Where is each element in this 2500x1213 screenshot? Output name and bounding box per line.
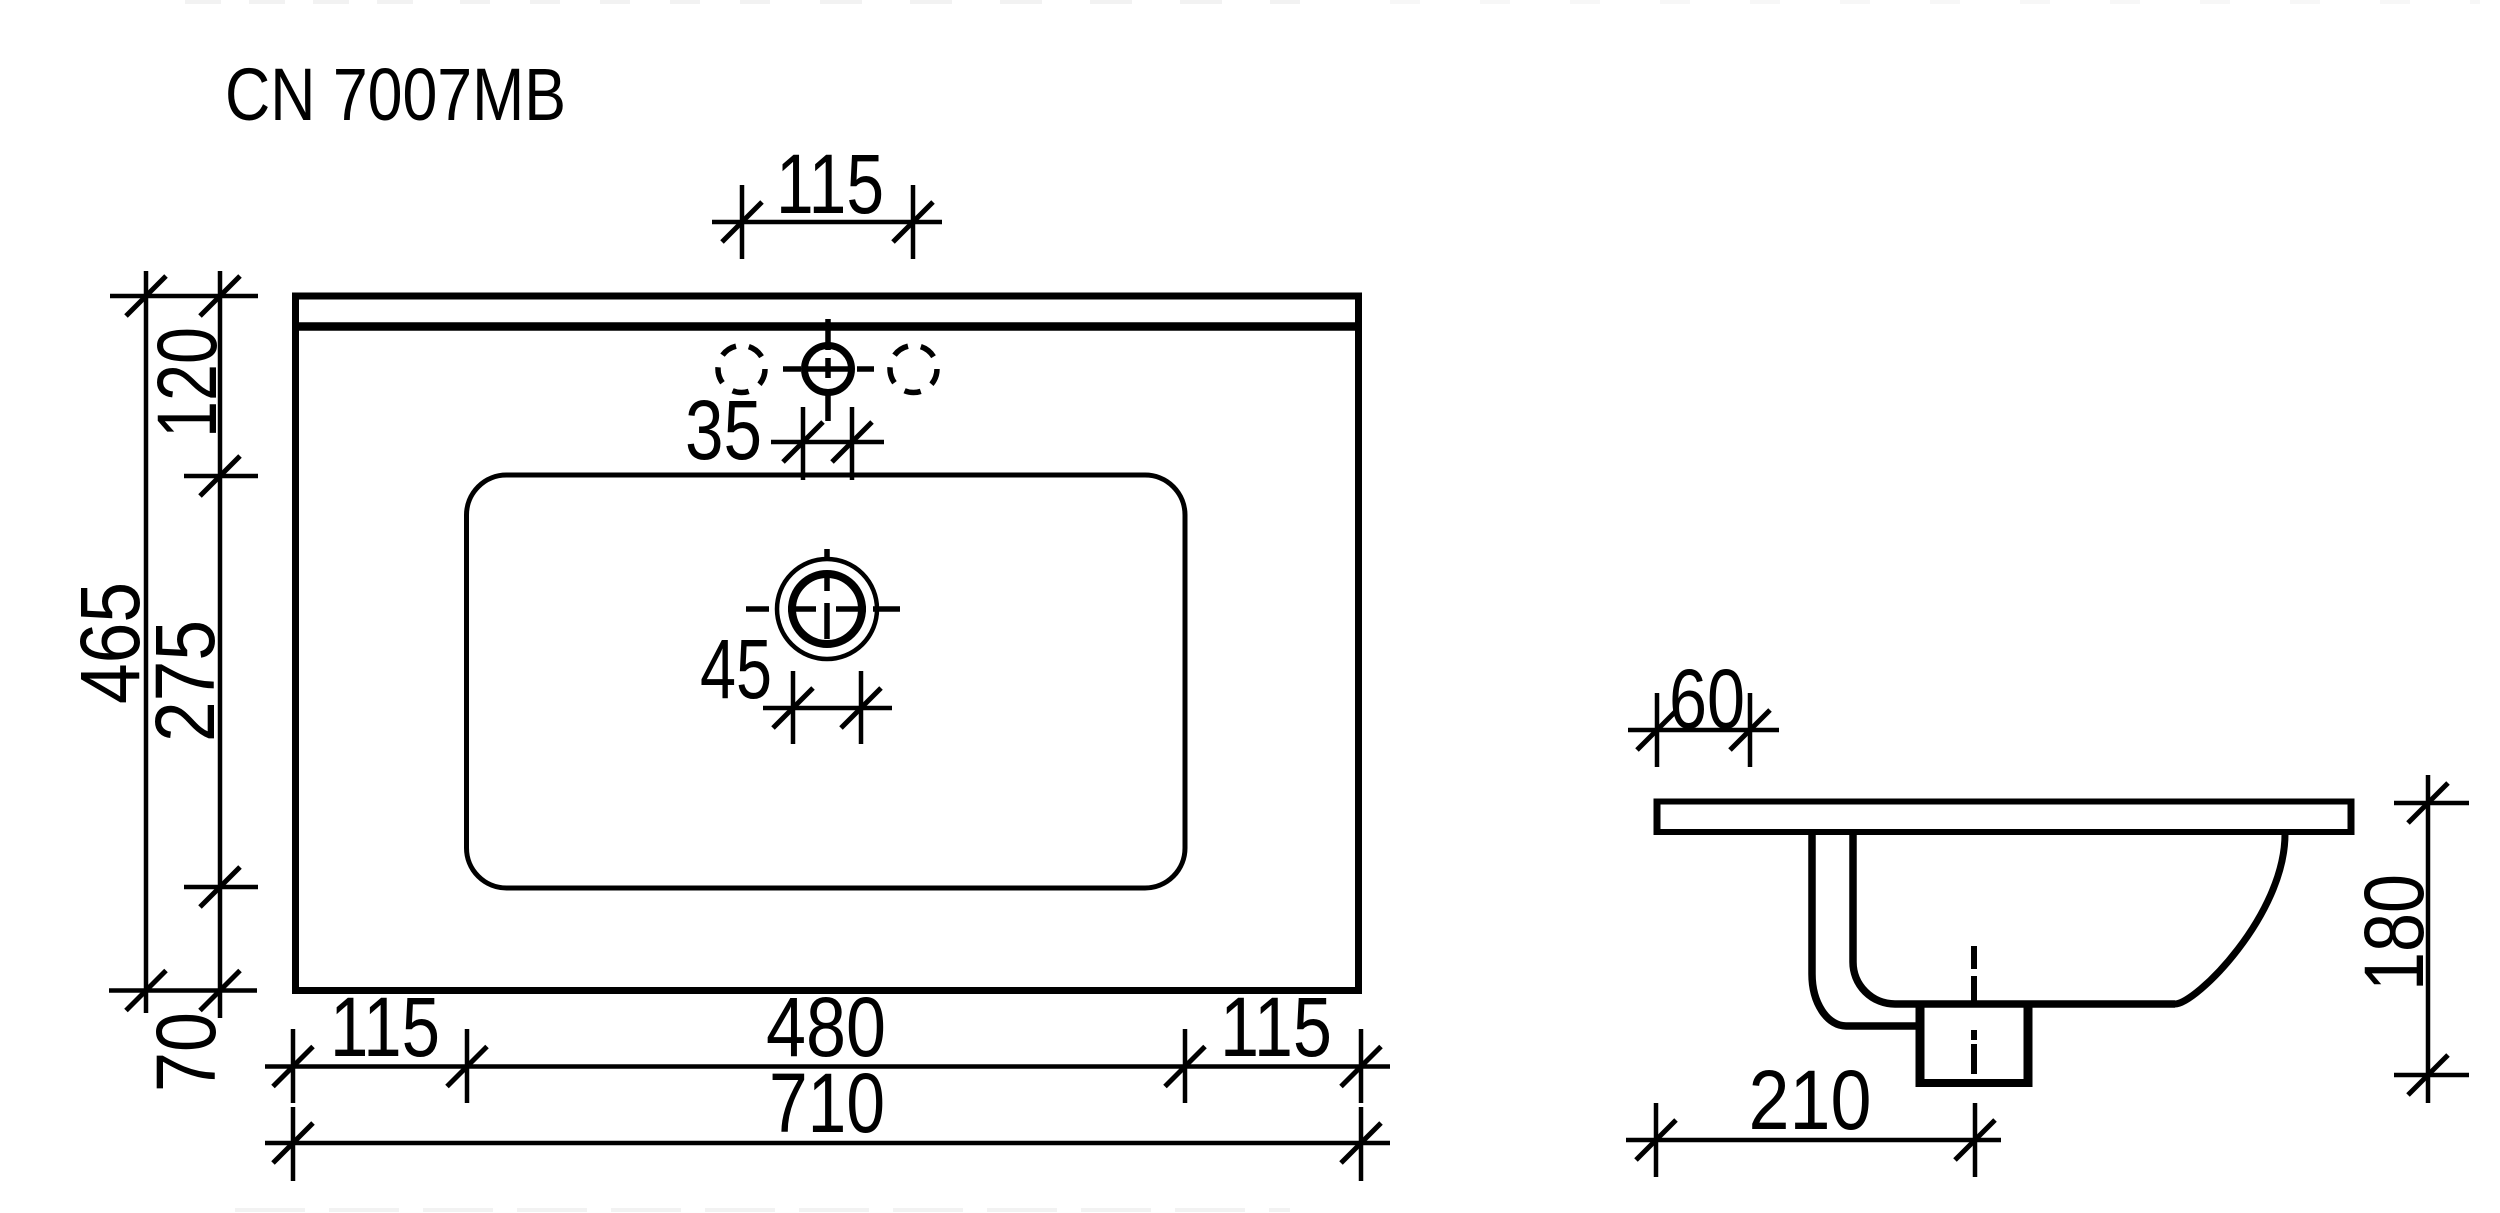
dim 45: dimension line: [763, 706, 892, 711]
dim 35: extension lines: [801, 407, 806, 480]
bottom dims: tick slashes upper: [273, 1047, 313, 1087]
bottom dims: extension at x=1361: [1359, 1029, 1364, 1103]
faucet hole circle: [805, 346, 852, 393]
svg-text:275: 275: [138, 620, 232, 742]
left dims: top extension line: [110, 294, 258, 299]
bottom upper dimension line (115/480/115): [265, 1064, 1390, 1069]
dim 180: dimension line: [2426, 775, 2431, 1103]
faint artifact strip bottom: [235, 1208, 1290, 1212]
dim 180: tick slashes: [2408, 783, 2448, 823]
bottom dims: tick slashes lower: [273, 1123, 313, 1163]
faucet centerline horizontal: [783, 366, 874, 372]
faucet centerline vertical: [825, 319, 831, 421]
side view: bowl outer wall: [1812, 833, 1920, 1026]
bottom dims: extension at x=467: [465, 1029, 470, 1103]
dim 35: dimension line: [771, 440, 884, 445]
dim 45: extension lines: [791, 671, 796, 744]
left dims: bottom tick slashes: [126, 971, 166, 1011]
dim 45: tick slashes: [773, 688, 813, 728]
dim 210: dimension line: [1626, 1138, 2001, 1143]
svg-text:710: 710: [769, 1056, 885, 1150]
dim 210: extension lines: [1654, 1103, 1659, 1177]
svg-text:120: 120: [140, 327, 234, 438]
side view: drain box centerline: [1971, 946, 1977, 1074]
bottom dims: extension at x=293: [291, 1029, 296, 1103]
basin inner bowl rounded rect: [467, 475, 1186, 888]
side view: bowl inner wall: [1853, 833, 2175, 1004]
svg-text:35: 35: [685, 383, 762, 477]
washbasin outline (plan view): [296, 296, 1359, 991]
back edge line: [292, 322, 1362, 331]
left dims: top tick slashes: [126, 276, 166, 316]
drain outer circle: [777, 559, 877, 659]
dim 115 top: dimension line: [712, 220, 942, 225]
svg-text:180: 180: [2347, 874, 2441, 991]
side view: countertop slab bottom line: [1654, 829, 2354, 835]
dim 60: extension lines: [1655, 693, 1660, 767]
svg-text:60: 60: [1669, 652, 1745, 746]
left dims: 120/275 extension stub: [184, 474, 258, 479]
dim 60: dimension line: [1628, 728, 1779, 733]
side view: drain box bottom: [1916, 1079, 2033, 1087]
side view: slab right edge: [2348, 799, 2355, 836]
dim 115 top: tick slashes: [722, 202, 762, 242]
faint artifact strip top: [185, 0, 2480, 4]
svg-text:210: 210: [1749, 1053, 1872, 1147]
side view: countertop slab top line: [1654, 799, 2354, 805]
dim 210: tick slashes: [1636, 1120, 1676, 1160]
side view: bowl right profile curve: [2175, 834, 2285, 1004]
svg-text:115: 115: [776, 137, 884, 231]
dim 35: tick slashes: [783, 422, 823, 462]
faucet hole optional right (dashed): [890, 346, 937, 393]
dim 115 top: extension lines: [740, 185, 745, 259]
left dims: 275/70 extension stub: [184, 885, 258, 890]
svg-text:45: 45: [700, 622, 772, 716]
drain centerline horizontal: [746, 606, 900, 612]
left inner dimension line (120/275/70): [218, 271, 223, 1018]
drain centerline vertical: [824, 549, 830, 691]
left dims: bottom extension line: [109, 988, 257, 993]
dim 60: tick slashes: [1637, 710, 1677, 750]
svg-text:115: 115: [1220, 980, 1332, 1074]
side view: slab left edge: [1654, 799, 1661, 836]
bottom lower dimension line (710): [265, 1141, 1390, 1146]
drain inner circle: [792, 574, 862, 644]
svg-text:CN 7007MB: CN 7007MB: [225, 53, 566, 136]
faucet hole optional left (dashed): [718, 346, 765, 393]
left outer dimension line (465): [144, 271, 149, 1013]
side view: drain box left wall: [1916, 1004, 1925, 1087]
svg-text:115: 115: [330, 980, 440, 1074]
dim 180: extension stubs: [2394, 801, 2469, 806]
side view: drain box right wall: [2024, 1004, 2033, 1087]
svg-text:70: 70: [139, 1012, 233, 1092]
bottom dims: extension at x=1185: [1183, 1029, 1188, 1103]
